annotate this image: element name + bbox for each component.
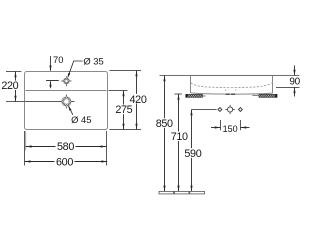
- hidden drain ticks: [225, 90, 227, 91]
- svg-text:90: 90: [289, 77, 300, 88]
- dim 420: [110, 70, 142, 72]
- svg-text:275: 275: [115, 104, 132, 116]
- svg-text:Ø: Ø: [83, 55, 90, 66]
- dim 220: [6, 71, 21, 73]
- dim 275: [109, 90, 128, 92]
- faucet hole (tap hole): [61, 76, 71, 86]
- drain hole: [62, 95, 71, 109]
- dim 590: [191, 110, 193, 192]
- fixing hole diamond right: [239, 108, 243, 112]
- faucet hole centerline: [46, 80, 59, 82]
- svg-text:590: 590: [184, 148, 201, 160]
- dim 600: [24, 131, 26, 166]
- dim 150: [220, 120, 222, 130]
- deck line (inner rear shelf edge): [25, 90, 106, 92]
- svg-text:35: 35: [93, 55, 103, 66]
- leader Ø 45: [69, 106, 73, 115]
- svg-text:45: 45: [81, 114, 91, 125]
- drain bottom dashes: [226, 93, 230, 95]
- svg-text:Ø: Ø: [71, 114, 78, 125]
- svg-text:70: 70: [53, 54, 63, 65]
- right wall bracket: [252, 94, 277, 97]
- dim 70 (upper part): [50, 56, 52, 88]
- bowl hidden line (dashed): [191, 83, 272, 88]
- fixing holes centerline: [192, 109, 217, 111]
- left wall bracket: [186, 94, 206, 97]
- drain centerline: [6, 101, 75, 103]
- svg-text:220: 220: [1, 80, 18, 92]
- basin outline: [25, 72, 108, 130]
- top edge with extension lines: [160, 75, 300, 77]
- fixing hole diamond left: [218, 108, 222, 112]
- floor bar: [159, 191, 205, 194]
- svg-text:850: 850: [156, 118, 173, 130]
- svg-text:710: 710: [171, 131, 188, 143]
- dim 850: [164, 76, 166, 192]
- body outline: [191, 76, 273, 95]
- fixing hole circle: [225, 105, 234, 114]
- dim 90: [276, 87, 300, 89]
- leader Ø 35: [68, 61, 83, 76]
- svg-text:580: 580: [57, 141, 74, 153]
- svg-text:600: 600: [56, 156, 73, 168]
- dim 580: [25, 131, 27, 151]
- dim 710: [174, 93, 182, 95]
- svg-text:150: 150: [223, 124, 238, 134]
